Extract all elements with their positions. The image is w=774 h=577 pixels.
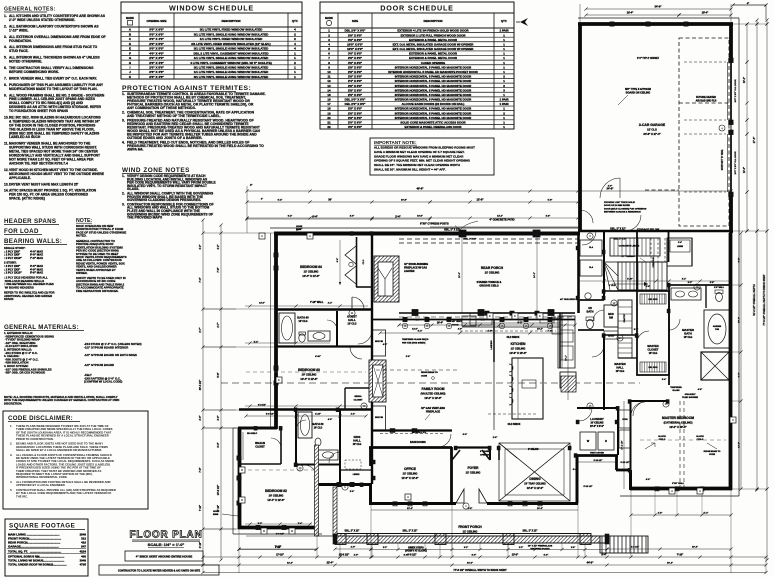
dimension line: garage top split bbox=[584, 12, 732, 17]
svg-text:16'0" X 8'0": 16'0" X 8'0" bbox=[347, 42, 363, 46]
svg-text:12' CEILING: 12' CEILING bbox=[485, 271, 500, 275]
svg-text:SUPPORT 'D' SIDE: SUPPORT 'D' SIDE bbox=[722, 149, 724, 170]
svg-text:3'-0": 3'-0" bbox=[350, 216, 354, 218]
svg-text:3'-4": 3'-4" bbox=[738, 373, 741, 378]
misc labels top dims extra bbox=[261, 186, 612, 218]
dimension line: top second bbox=[245, 198, 579, 204]
svg-text:10" X 10" FIBERGLASS: 10" X 10" FIBERGLASS bbox=[528, 545, 553, 548]
svg-text:DBL 2 LITE VINYL CASEMENT WIND: DBL 2 LITE VINYL CASEMENT WINDOW INSULAT… bbox=[193, 51, 269, 55]
bath3 tub bbox=[279, 313, 295, 343]
interior dims bedroom wing bbox=[244, 413, 367, 418]
svg-text:4'-8": 4'-8" bbox=[698, 388, 702, 391]
kitchen hall wall stub bbox=[559, 313, 561, 368]
svg-text:BARN DOORS: BARN DOORS bbox=[410, 441, 426, 444]
svg-text:2'-4": 2'-4" bbox=[298, 522, 302, 525]
svg-text:12'-4": 12'-4" bbox=[407, 507, 413, 510]
hose bibb top bbox=[296, 226, 303, 231]
svg-text:2'-6": 2'-6" bbox=[350, 491, 354, 493]
windows on exterior walls as black squares bbox=[274, 253, 278, 257]
front porch dim ticks bottom bbox=[338, 554, 586, 559]
svg-text:2'-8": 2'-8" bbox=[488, 331, 493, 333]
wall: laundry right bbox=[617, 408, 619, 455]
svg-text:DBL. 2" X 12": DBL. 2" X 12" bbox=[403, 531, 418, 533]
wall: bedroom4 right bbox=[371, 233, 373, 311]
svg-text:13: 13 bbox=[327, 84, 331, 88]
svg-text:2'-4": 2'-4" bbox=[678, 241, 682, 244]
left dim extension lines extra bbox=[203, 309, 236, 529]
svg-text:INTERIOR HORIZONTAL 5 PANEL HD: INTERIOR HORIZONTAL 5 PANEL HD MASONITE … bbox=[395, 75, 472, 79]
svg-text:BATH: BATH bbox=[586, 309, 593, 313]
porch post bottom 1 bbox=[412, 310, 418, 316]
svg-text:EXT. O.H. METAL INSULATED GARA: EXT. O.H. METAL INSULATED GARAGE DOOR W/… bbox=[393, 47, 475, 51]
svg-text:6'-2": 6'-2" bbox=[278, 200, 283, 202]
svg-text:SCALE: 1/4" = 1'-0": SCALE: 1/4" = 1'-0" bbox=[148, 542, 185, 547]
svg-text:3/1 LITE VINYL SINGLE HUNG WIN: 3/1 LITE VINYL SINGLE HUNG WINDOW INSULA… bbox=[194, 47, 269, 51]
svg-text:SOFFIT VENTS TO BE USED ONLY I: SOFFIT VENTS TO BE USED ONLY INACCORDANC… bbox=[76, 276, 126, 293]
half bath walls bbox=[578, 300, 604, 330]
svg-text:CLOSET: CLOSET bbox=[354, 399, 364, 401]
interior dimension string: porch bottom bbox=[397, 322, 576, 327]
porch post on top wall 2 bbox=[533, 230, 540, 237]
svg-text:19'-4": 19'-4" bbox=[627, 12, 634, 15]
svg-text:42" SUB-ZERO: 42" SUB-ZERO bbox=[560, 298, 576, 301]
svg-text:DBL. 2" X 12": DBL. 2" X 12" bbox=[610, 228, 625, 231]
wall: foyer/dining front exterior bbox=[452, 502, 456, 505]
svg-text:2'0" X 5'0": 2'0" X 5'0" bbox=[149, 42, 164, 46]
svg-text:12'-8": 12'-8" bbox=[259, 303, 265, 305]
svg-text:..............................: ....................................... bbox=[30, 550, 62, 554]
svg-text:10' CLG: 10' CLG bbox=[353, 444, 362, 446]
wall: bedroom4/bath3 divider bbox=[276, 308, 372, 310]
svg-text:3'-2": 3'-2" bbox=[383, 547, 387, 549]
label: 3'-1" offset note top bbox=[637, 58, 660, 60]
svg-text:34'-8" X 27'-4": 34'-8" X 27'-4" bbox=[643, 132, 661, 136]
svg-text:14'-2": 14'-2" bbox=[738, 442, 741, 448]
svg-text:9'-8 1/2": 9'-8 1/2" bbox=[258, 405, 266, 407]
garage door labels rotated bbox=[735, 79, 737, 174]
svg-text:5'-2": 5'-2" bbox=[688, 282, 692, 284]
general notes list bbox=[4, 14, 106, 201]
code disclaimer box bbox=[3, 411, 148, 509]
header spans table text bbox=[4, 246, 55, 301]
title: GENERAL NOTES bbox=[4, 7, 56, 13]
svg-text:HOOD: HOOD bbox=[452, 324, 459, 326]
svg-text:21: 21 bbox=[327, 120, 331, 124]
note box: contractor water heater bbox=[99, 565, 219, 575]
svg-text:4'-0": 4'-0" bbox=[646, 478, 650, 481]
svg-text:EXT. O.H. METAL INSULATED GARA: EXT. O.H. METAL INSULATED GARAGE DOOR W/… bbox=[393, 42, 475, 46]
svg-text:INTERIOR HORIZONTAL 5 PANEL HD: INTERIOR HORIZONTAL 5 PANEL HD MASONITE … bbox=[395, 93, 472, 97]
master toilet room bbox=[714, 286, 725, 302]
dimension line: top third bbox=[245, 216, 431, 221]
svg-text:5'-6" MAX: 5'-6" MAX bbox=[30, 271, 43, 275]
svg-text:2'-8 1/2": 2'-8 1/2" bbox=[631, 547, 639, 549]
svg-text:14'-3": 14'-3" bbox=[743, 167, 746, 173]
dashed ceiling line master bbox=[640, 439, 726, 441]
svg-text:5'-8": 5'-8" bbox=[548, 200, 553, 202]
dimension line: left inner vertical bbox=[217, 223, 223, 561]
svg-text:5'-6": 5'-6" bbox=[217, 372, 220, 377]
room label: BEDROOM #4 bbox=[300, 265, 322, 278]
svg-text:13'-1": 13'-1" bbox=[744, 77, 746, 83]
svg-text:3'0" X 8'0": 3'0" X 8'0" bbox=[348, 52, 363, 56]
svg-text:PER TUB (THIS SHEET): PER TUB (THIS SHEET) bbox=[402, 342, 426, 344]
misc dim labels bedroom wing bbox=[254, 302, 354, 526]
wall: pantry south bbox=[618, 357, 637, 359]
svg-text:1/1 LITE VINYL SINGLE HUNG WIN: 1/1 LITE VINYL SINGLE HUNG WINDOW INSULA… bbox=[194, 70, 269, 74]
bath2 vanity bbox=[318, 450, 338, 460]
svg-text:7'-10": 7'-10" bbox=[275, 546, 282, 549]
kitchen sink in island bbox=[522, 380, 536, 388]
svg-text:10' CEILING: 10' CEILING bbox=[269, 494, 284, 498]
wall: master hall left bbox=[603, 335, 605, 410]
door swing arc: garage entry bbox=[625, 215, 641, 231]
room label: KIDS HALL bbox=[353, 435, 362, 446]
svg-text:7'-6": 7'-6" bbox=[199, 467, 202, 472]
master wing door arcs bbox=[631, 402, 645, 416]
svg-text:12'-8": 12'-8" bbox=[476, 198, 484, 202]
garage door mark circle 2 bbox=[711, 127, 713, 129]
wall: family room left = bedroom wing right bbox=[371, 311, 373, 430]
svg-text:7.BRICK VENEER WALL TIES EVERY: 7.BRICK VENEER WALL TIES EVERY 24" O.C. … bbox=[4, 76, 97, 80]
garage interior door track dashes bbox=[684, 62, 726, 192]
stair upper landing with linen bbox=[667, 238, 692, 266]
svg-text:DBL 2'0" X 8'0": DBL 2'0" X 8'0" bbox=[345, 98, 366, 102]
wall: garage bottom / house interface bbox=[578, 230, 733, 233]
svg-text:19'-2": 19'-2" bbox=[692, 547, 698, 549]
svg-text:..............................: ........................................… bbox=[19, 545, 59, 549]
svg-text:3/1 LITE VINYL FIXED WINDOW IN: 3/1 LITE VINYL FIXED WINDOW INSULATED bbox=[200, 28, 263, 32]
svg-text:BEARING WALLS:: BEARING WALLS: bbox=[4, 238, 62, 245]
svg-text:12'-6" X 12'-0": 12'-6" X 12'-0" bbox=[527, 487, 544, 490]
svg-text:3'-4": 3'-4" bbox=[446, 319, 450, 322]
svg-text:3'-4": 3'-4" bbox=[573, 468, 577, 471]
left dim rotated labels extra bbox=[199, 245, 220, 512]
svg-text:MASTER: MASTER bbox=[614, 362, 625, 366]
label: gypsum board on ceiling bbox=[618, 88, 651, 105]
svg-text:EXTERIOR 1 LITE FULL FRENCH WO: EXTERIOR 1 LITE FULL FRENCH WOOD DOOR bbox=[401, 33, 467, 37]
important note box bbox=[370, 138, 494, 175]
svg-text:34'-8": 34'-8" bbox=[606, 187, 614, 191]
svg-text:9' CLA: 9' CLA bbox=[609, 284, 616, 287]
master bath walls bbox=[669, 285, 731, 385]
svg-text:HALL: HALL bbox=[616, 365, 624, 369]
svg-text:13'-4" X 12'-6": 13'-4" X 12'-6" bbox=[300, 377, 318, 381]
room label: REAR PORCH bbox=[481, 266, 504, 275]
wall: garage top exterior bbox=[578, 22, 733, 26]
wall: front wall segment to office bbox=[316, 483, 371, 486]
svg-text:15: 15 bbox=[327, 93, 331, 97]
svg-text:INTERIOR HORIZONTAL 5 PANEL HD: INTERIOR HORIZONTAL 5 PANEL HD MASONITE … bbox=[395, 98, 472, 102]
svg-text:DOOR OR 20 MIN RATED: DOOR OR 20 MIN RATED bbox=[604, 204, 631, 207]
svg-text:2'-10": 2'-10" bbox=[199, 542, 202, 549]
hall/stair east wall bbox=[668, 231, 670, 262]
half bath door arc bbox=[593, 310, 604, 321]
svg-text:3'0" X 5'0": 3'0" X 5'0" bbox=[149, 47, 164, 51]
svg-text:: 2 PLY 2X10": : 2 PLY 2X10" bbox=[4, 271, 22, 275]
svg-text:17'-10": 17'-10" bbox=[276, 554, 284, 557]
extra labels y565 string bbox=[287, 562, 673, 567]
label: fiberglass posts bbox=[528, 545, 553, 551]
svg-text:17" TREADS: 17" TREADS bbox=[621, 255, 635, 258]
svg-text:10'-8 1/2": 10'-8 1/2" bbox=[339, 554, 349, 557]
wall: bath3 bottom bbox=[276, 345, 372, 347]
label: future heated space bbox=[696, 96, 717, 103]
svg-text:FAMILY ROOM: FAMILY ROOM bbox=[422, 387, 445, 391]
svg-text:20: 20 bbox=[327, 116, 331, 120]
svg-text:11'-0" X 12'-0": 11'-0" X 12'-0" bbox=[401, 476, 419, 480]
svg-text:WINDOW SCHEDULE: WINDOW SCHEDULE bbox=[169, 4, 254, 13]
svg-text:4": 4" bbox=[261, 198, 263, 201]
mud room bench bbox=[604, 305, 618, 327]
svg-text:A: A bbox=[671, 489, 673, 493]
master vanity double sinks bbox=[671, 288, 701, 300]
svg-text:SQUARE FOOTAGE: SQUARE FOOTAGE bbox=[9, 523, 75, 530]
garage dashed line lower bbox=[645, 189, 679, 191]
svg-text:3'-2": 3'-2" bbox=[519, 547, 523, 549]
svg-text:10'-4": 10'-4" bbox=[738, 317, 741, 323]
label: ridge beam to code bbox=[421, 371, 438, 377]
svg-text:2'8" X 8'0": 2'8" X 8'0" bbox=[348, 65, 363, 69]
room label: BATH #3 bbox=[297, 316, 309, 324]
svg-text:4'-8": 4'-8" bbox=[658, 512, 663, 515]
wall: garage left exterior bbox=[578, 24, 582, 231]
svg-text:2/1 LITE VINYL FIXED WINDOW IN: 2/1 LITE VINYL FIXED WINDOW INSULATED (1… bbox=[191, 42, 270, 46]
svg-text:10'-1": 10'-1" bbox=[566, 355, 568, 361]
label: stained tongue and groove bbox=[477, 281, 502, 288]
svg-text:3'-2": 3'-2" bbox=[464, 547, 468, 549]
svg-text:8"X8" CYPRESS POSTS: 8"X8" CYPRESS POSTS bbox=[420, 223, 449, 226]
bottom extension lines bbox=[203, 489, 766, 573]
interior dims laundry area bbox=[578, 460, 618, 462]
kitchen counter along top wall bbox=[460, 313, 575, 327]
title: GENERAL MATERIALS bbox=[4, 324, 84, 331]
guest hall door arc to bath3 bbox=[327, 320, 337, 330]
room label: BATH #2 bbox=[313, 422, 325, 429]
svg-text:2'-7": 2'-7" bbox=[199, 327, 202, 332]
svg-text:BATH #2: BATH #2 bbox=[313, 422, 325, 426]
wall: master bedroom bottom exterior bbox=[630, 487, 732, 491]
right dim line ticks bbox=[745, 22, 768, 490]
svg-text:LIGHTER: LIGHTER bbox=[404, 270, 415, 273]
svg-text:2'-4": 2'-4" bbox=[328, 302, 332, 305]
svg-text:OPENING SIZE: OPENING SIZE bbox=[147, 19, 167, 23]
wall: laundry top bbox=[577, 407, 618, 409]
garage man door arc bbox=[580, 210, 593, 223]
svg-text:INTERIOR HORIZONTAL 5 PANEL HD: INTERIOR HORIZONTAL 5 PANEL HD MASONITE … bbox=[395, 84, 472, 88]
room label: LAUNDRY bbox=[590, 417, 604, 428]
label: tempered glass shower bbox=[670, 387, 698, 399]
wind zone notes list bbox=[122, 174, 217, 220]
washer dryer units bbox=[580, 432, 614, 450]
wall: office bottom exterior bbox=[369, 502, 452, 505]
svg-text:-1/2" GYPSUM BOARD: -1/2" GYPSUM BOARD bbox=[84, 363, 114, 367]
family room dashed ceiling + fan bbox=[376, 370, 460, 379]
wall: master bedroom top bbox=[630, 400, 669, 402]
svg-text:CLA: CLA bbox=[589, 246, 594, 249]
svg-text:3'-0": 3'-0" bbox=[200, 416, 202, 421]
table: DOOR SCHEDULE bbox=[320, 2, 514, 129]
svg-text:IMPORTANT NOTE:: IMPORTANT NOTE: bbox=[374, 140, 417, 145]
svg-text:C: C bbox=[732, 418, 734, 422]
svg-text:HOSE: HOSE bbox=[296, 226, 303, 228]
svg-text:B: B bbox=[291, 529, 293, 533]
svg-text:7'-10" WALL: 7'-10" WALL bbox=[310, 301, 324, 304]
pantry shelving column bbox=[618, 300, 632, 335]
svg-text:JOB-BUILT: JOB-BUILT bbox=[685, 394, 697, 396]
top-right corner 4in dim bbox=[731, 2, 767, 20]
svg-text:3'-4": 3'-4" bbox=[418, 330, 423, 333]
brick steps bbox=[600, 536, 648, 553]
room label: DINING bbox=[524, 477, 545, 490]
svg-text:4224: 4224 bbox=[80, 550, 87, 554]
svg-text:16' WALL HT.: 16' WALL HT. bbox=[412, 431, 427, 434]
master closet rod stripes bottom bbox=[642, 362, 665, 372]
interior dims office bottom bbox=[371, 507, 578, 510]
svg-text:2'8" X 8'0": 2'8" X 8'0" bbox=[348, 56, 363, 60]
brick skirt outline bottom right bbox=[620, 495, 739, 497]
right dim line ticks bbox=[745, 22, 768, 490]
label: garage door fire note bbox=[604, 202, 647, 214]
svg-text:9'-6": 9'-6" bbox=[337, 258, 339, 262]
hose bibb bottom bbox=[213, 511, 238, 516]
svg-text:BIBB: BIBB bbox=[213, 514, 219, 516]
wall: kitchen/porch divider upper bbox=[577, 233, 580, 313]
svg-text:10' CLG: 10' CLG bbox=[684, 337, 693, 339]
svg-text:D: D bbox=[241, 498, 243, 502]
interior dims bed2 bbox=[246, 534, 316, 537]
svg-text:14'-2": 14'-2" bbox=[533, 272, 536, 278]
svg-text:E: E bbox=[539, 314, 541, 318]
master closet shelves bottom bbox=[640, 362, 666, 372]
windows kitchen top wall bbox=[485, 311, 489, 315]
svg-text:16'0" X 8'0" O.H. DOOR: 16'0" X 8'0" O.H. DOOR bbox=[735, 79, 737, 102]
svg-text:DBL. 2" X 12": DBL. 2" X 12" bbox=[345, 531, 360, 533]
svg-text:7'-10": 7'-10" bbox=[200, 505, 202, 511]
dimension line: bottom string 2 bbox=[201, 554, 767, 559]
svg-text:3/1 LITE VINYL SINGLE HUNG WIN: 3/1 LITE VINYL SINGLE HUNG WINDOW INSULA… bbox=[194, 66, 269, 70]
svg-text:DOOR (SELF-CLOSING) FOR OPENIN: DOOR (SELF-CLOSING) FOR OPENINGS bbox=[604, 208, 647, 210]
svg-text:DBL 2'0" X 8'0": DBL 2'0" X 8'0" bbox=[345, 102, 366, 106]
svg-text:PROTECTION AGAINST TERMITES:: PROTECTION AGAINST TERMITES: bbox=[122, 85, 251, 92]
svg-text:13.DRYER VENT MUST HAVE MAX LE: 13.DRYER VENT MUST HAVE MAX LENGTH 25' bbox=[4, 182, 79, 186]
svg-text:4": 4" bbox=[747, 2, 749, 5]
svg-text:3'0" X 8'0": 3'0" X 8'0" bbox=[348, 125, 363, 129]
label: cypress posts bbox=[420, 223, 461, 232]
stairs treads run bbox=[618, 262, 667, 290]
wall: bedroom 2 bottom exterior bbox=[238, 526, 318, 530]
svg-text:FIREPLACE: FIREPLACE bbox=[426, 411, 441, 414]
master closet rod stripes top bbox=[642, 294, 665, 304]
svg-text:TILED SHOWER: TILED SHOWER bbox=[682, 397, 698, 399]
svg-text:WRAPPED POSTS: WRAPPED POSTS bbox=[530, 548, 550, 551]
svg-text:16: 16 bbox=[327, 98, 331, 102]
top-right corner 4in dim bbox=[731, 2, 767, 20]
svg-text:6'-2": 6'-2" bbox=[288, 216, 292, 218]
svg-text:9' CELNG: 9' CELNG bbox=[528, 449, 539, 451]
svg-text:......................: ...................... bbox=[49, 563, 67, 567]
vertical extensions from band to dims bbox=[398, 543, 562, 549]
svg-text:EXTERIOR & PANEL METAL DOOR: EXTERIOR & PANEL METAL DOOR bbox=[409, 56, 458, 60]
svg-text:RIDGE BEAM TO: RIDGE BEAM TO bbox=[421, 371, 438, 374]
svg-text:10' CEILING: 10' CEILING bbox=[590, 422, 603, 424]
svg-text:LAUNDRY: LAUNDRY bbox=[590, 417, 604, 421]
wall: master wing left bbox=[629, 470, 632, 490]
interior dims master bottom bbox=[629, 512, 732, 517]
room label: BEDROOM #2 bbox=[265, 489, 287, 502]
svg-text:2'6" X 4'6": 2'6" X 4'6" bbox=[149, 75, 164, 79]
half bath sink bbox=[585, 293, 591, 299]
svg-text:2.BEAMS AND FLOOR JOISTS ARE N: 2.BEAMS AND FLOOR JOISTS ARE NOT SIZED D… bbox=[10, 442, 108, 452]
wall: landing/closet column west bbox=[636, 231, 638, 291]
door arc: bedroom2 bbox=[304, 465, 317, 478]
kitchen lower counter to island bbox=[493, 362, 495, 430]
svg-text:13'-4" X 12'-6": 13'-4" X 12'-6" bbox=[267, 498, 285, 502]
materials footnote bbox=[4, 395, 119, 405]
svg-text:TEMPERED GLASS REQ'D: TEMPERED GLASS REQ'D bbox=[402, 338, 429, 341]
svg-text:2'8" X 8'0": 2'8" X 8'0" bbox=[348, 107, 363, 111]
svg-text:INTERIOR HORIZONTAL 5 PANEL HD: INTERIOR HORIZONTAL 5 PANEL HD MASONITE … bbox=[395, 111, 472, 115]
svg-text:FOR LOAD: FOR LOAD bbox=[4, 228, 39, 235]
svg-text:9'-8 1/2": 9'-8 1/2" bbox=[407, 554, 416, 557]
dimension string right of porch y549 bbox=[605, 547, 732, 551]
svg-text:STOR: STOR bbox=[622, 419, 628, 421]
svg-text:5'-10 1/2": 5'-10 1/2" bbox=[594, 460, 603, 462]
wall: office left upper bbox=[369, 447, 372, 466]
svg-text:SLOPE: SLOPE bbox=[696, 436, 704, 438]
svg-text:1/1 LITE VINYL FIXED WINDOW IN: 1/1 LITE VINYL FIXED WINDOW INSULATED bbox=[200, 37, 263, 41]
svg-text:7'-6": 7'-6" bbox=[217, 267, 220, 272]
svg-text:MASTER BEDROOM: MASTER BEDROOM bbox=[662, 416, 694, 420]
svg-text:F: F bbox=[129, 51, 131, 55]
wall: bump-out top (bedroom 2) bbox=[238, 427, 277, 430]
kitchen range bbox=[470, 313, 492, 325]
wall: kids wing right lower bbox=[371, 430, 373, 484]
garage door jamb blocks bbox=[729, 58, 734, 63]
svg-text:CLA: CLA bbox=[589, 266, 594, 269]
bedroom3 media closet bbox=[345, 388, 372, 410]
bath3 vanity sink bbox=[308, 331, 330, 341]
title: PROTECTION AGAINST TERMITES bbox=[122, 85, 251, 92]
master shower with X bbox=[701, 352, 729, 380]
svg-text:20'-4": 20'-4" bbox=[537, 507, 543, 510]
porch column 4 bbox=[503, 534, 514, 545]
family room north wall with windows bbox=[372, 317, 575, 321]
termite notes list bbox=[122, 92, 266, 152]
office window squares bbox=[393, 502, 397, 506]
top dim extra line segments bbox=[245, 216, 579, 219]
svg-text:10' CLG: 10' CLG bbox=[348, 323, 357, 326]
svg-text:10'0" X 8'0" O.H. DOOR: 10'0" X 8'0" O.H. DOOR bbox=[735, 151, 737, 174]
svg-text:2"X6" WALL: 2"X6" WALL bbox=[672, 482, 685, 485]
title: FLOOR PLAN bbox=[130, 530, 203, 548]
dashed ceiling line bedroom3 bbox=[246, 371, 366, 373]
svg-text:2'8" X 8'0": 2'8" X 8'0" bbox=[348, 116, 363, 120]
svg-text:BATH: BATH bbox=[684, 331, 692, 335]
svg-text:12' CEILING: 12' CEILING bbox=[466, 471, 481, 475]
svg-text:10'-8": 10'-8" bbox=[417, 216, 423, 218]
dining left cased opening bbox=[498, 447, 500, 460]
dimension line: right inner vertical bbox=[743, 22, 749, 232]
svg-text:OLD BRICK: OLD BRICK bbox=[508, 424, 521, 426]
svg-text:OLD BRICK: OLD BRICK bbox=[507, 337, 520, 339]
dining tray ceiling X bbox=[499, 443, 570, 501]
svg-text:2'0" X 4'0": 2'0" X 4'0" bbox=[149, 61, 164, 65]
svg-text:D: D bbox=[241, 468, 243, 472]
svg-text:GROOVE CEILG: GROOVE CEILG bbox=[479, 285, 498, 288]
dimension line: garage top overall bbox=[580, 4, 733, 24]
ridge line dashed across plan bbox=[221, 382, 640, 384]
